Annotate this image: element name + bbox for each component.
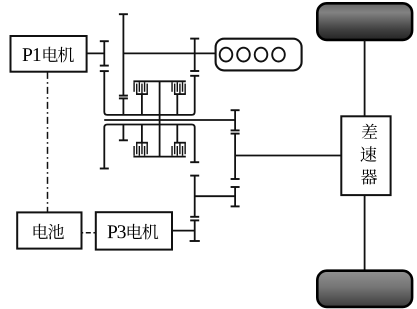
input shaft with end stops xyxy=(119,14,128,95)
coupling P3 (flange) xyxy=(190,220,200,241)
gear mesh comb lower-left xyxy=(134,125,148,156)
wire main shaft to engine xyxy=(123,52,215,54)
wire front-axle xyxy=(364,40,366,116)
engine block xyxy=(216,39,302,71)
wire P3 to coupling xyxy=(172,230,195,232)
coupling P1 (flange) xyxy=(100,41,109,71)
sun shaft bottom bar xyxy=(133,156,185,158)
stub gear on bracket xyxy=(119,125,128,141)
box battery xyxy=(17,212,81,248)
gear mesh comb lower-right xyxy=(172,125,186,156)
final drive gear pair xyxy=(231,187,240,206)
ring gear shaft (second line) xyxy=(104,119,235,121)
gear stop lower-right xyxy=(190,161,199,163)
wire battery to P3 (electrical, dash-dot) xyxy=(82,232,96,234)
wire rear-axle xyxy=(364,195,366,271)
wire P1 output shaft xyxy=(87,52,105,54)
gear mesh comb upper-left xyxy=(134,82,148,115)
P3 output gear shaft xyxy=(190,176,199,217)
center shaft xyxy=(159,81,161,156)
sun shaft top bar xyxy=(133,80,185,82)
carrier bracket (lower, mirrored) xyxy=(104,125,194,169)
brake stop lower-left xyxy=(100,168,109,170)
coupling input to carrier xyxy=(119,98,128,115)
gear mesh comb upper-right xyxy=(172,82,186,115)
coupling engine (flange) xyxy=(190,39,199,76)
wheel rear xyxy=(317,271,412,307)
box P3 motor xyxy=(96,212,172,249)
wheel front xyxy=(317,3,412,40)
wire final-drive to differential xyxy=(235,155,341,157)
box P1 motor xyxy=(11,36,87,72)
wire battery to P1 (electrical, dash-dot) xyxy=(47,72,49,212)
wire P3 gear link xyxy=(195,195,235,197)
carrier bracket (upper) xyxy=(104,71,194,115)
coupling to differential input xyxy=(231,110,240,179)
differential box xyxy=(341,116,390,195)
